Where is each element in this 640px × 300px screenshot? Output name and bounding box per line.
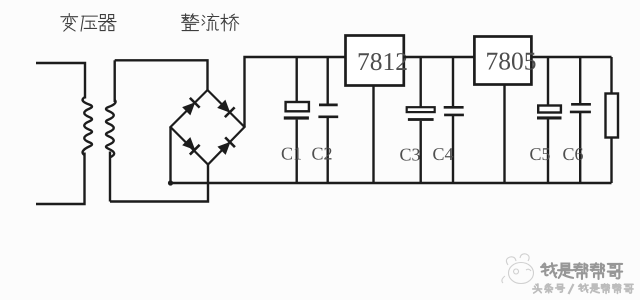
- watermark subtitle 头条号/我是帮帮哥: [533, 284, 633, 294]
- wire C6 top: [579, 57, 581, 104]
- wire secondary top lead: [113, 60, 115, 102]
- wire primary top: [36, 63, 85, 99]
- watermark text 我是帮帮哥: [541, 263, 622, 279]
- wire C5 bottom: [547, 120, 549, 184]
- capacitor C3 negative plate bar: [408, 118, 434, 121]
- wire bridge negative output down: [169, 127, 171, 183]
- diode D2 (upper-right, anode top to right vertex): [217, 99, 235, 117]
- wire resistor top: [610, 57, 612, 94]
- transformer T1 secondary winding: [106, 100, 116, 157]
- capacitor C2 plates: [318, 105, 338, 117]
- wire C4 top: [452, 57, 454, 107]
- label 整流桥 (rectifier bridge): [182, 14, 239, 31]
- bridge diamond wires: [171, 90, 245, 165]
- wire C2 top: [327, 57, 329, 105]
- svg-text:C6: C6: [563, 144, 584, 164]
- wire C1 top: [296, 57, 298, 102]
- wire primary bottom: [36, 153, 85, 205]
- regulator U2 box: [474, 37, 531, 85]
- wire secondary bottom lead: [109, 152, 111, 202]
- wire secondary top to bridge AC1: [115, 60, 208, 91]
- svg-text:7805: 7805: [486, 47, 537, 76]
- svg-text:7812: 7812: [357, 47, 408, 76]
- capacitor C1 negative plate bar: [284, 116, 309, 119]
- wire U1 ground pin: [372, 86, 374, 184]
- regulator U1 box: [346, 36, 404, 86]
- svg-text:C1: C1: [281, 144, 302, 164]
- diode D1 (upper-left, anode left vertex to top): [182, 98, 200, 116]
- wire C3 top: [420, 57, 422, 107]
- wire secondary bottom to bridge AC2: [110, 164, 208, 202]
- capacitor C1 positive plate box: [286, 102, 309, 111]
- wire C5 top: [547, 57, 549, 106]
- wire U2 output rail: [531, 56, 611, 58]
- transformer T1 primary winding: [83, 97, 92, 155]
- wire C6 bottom: [579, 112, 581, 183]
- diode D3 (lower-left, anode left vertex to bottom): [182, 137, 200, 155]
- svg-text:C5: C5: [530, 144, 551, 164]
- capacitor C5 positive plate box: [538, 106, 561, 113]
- junction dot at ground rail start: [168, 180, 173, 185]
- ground rail: [171, 182, 612, 185]
- svg-text:C2: C2: [312, 144, 333, 164]
- svg-text:C4: C4: [433, 144, 454, 164]
- capacitor C3 positive plate box: [407, 107, 435, 112]
- resistor R1 (load): [606, 94, 619, 138]
- wire U1 output rail: [404, 56, 475, 58]
- capacitor C4 plates: [444, 107, 464, 115]
- wire bridge positive output up: [245, 57, 346, 127]
- diode D4 (lower-right, anode bottom to right vertex): [217, 137, 235, 155]
- wire C1 bottom: [296, 120, 298, 183]
- wire C2 bottom: [327, 117, 329, 183]
- capacitor C6 plates: [570, 104, 591, 112]
- wire resistor bottom: [610, 138, 612, 184]
- capacitor C5 negative plate bar: [537, 116, 562, 119]
- wire C3 bottom: [420, 121, 422, 183]
- svg-text:C3: C3: [400, 145, 421, 165]
- label 变压器 (transformer): [61, 14, 116, 32]
- wire U2 ground pin: [503, 85, 505, 184]
- watermark logo (cartoon outline): [502, 254, 534, 284]
- wire C4 bottom: [452, 115, 454, 183]
